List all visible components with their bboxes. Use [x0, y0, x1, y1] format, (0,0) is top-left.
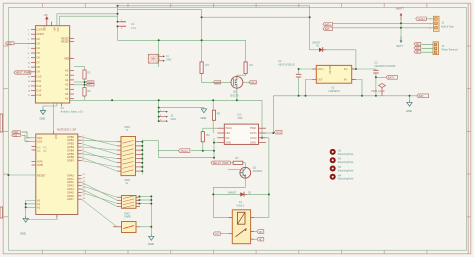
svg-text:SDA: SDA — [88, 81, 93, 84]
svg-text:Q2: Q2 — [233, 90, 237, 94]
svg-text:INTB: INTB — [37, 163, 43, 167]
svg-text:NC: NC — [43, 149, 47, 153]
svg-text:GPB0: GPB0 — [67, 135, 74, 139]
svg-text:GPA1: GPA1 — [67, 177, 74, 181]
svg-text:SDA: SDA — [37, 136, 43, 140]
svg-text:R3: R3 — [206, 63, 210, 67]
svg-text:BAT+: BAT+ — [325, 23, 332, 26]
svg-text:R4: R4 — [250, 63, 254, 67]
svg-text:BS170: BS170 — [231, 94, 239, 98]
svg-text:MountingHole: MountingHole — [338, 161, 354, 164]
svg-text:GPB6: GPB6 — [67, 155, 74, 159]
svg-text:IN-: IN- — [344, 79, 347, 82]
svg-text:GPB3: GPB3 — [67, 145, 74, 149]
svg-text:GPA5: GPA5 — [67, 190, 74, 194]
svg-text:GND: GND — [406, 109, 412, 113]
svg-text:IN+: IN+ — [344, 68, 348, 71]
svg-text:3V3: 3V3 — [43, 26, 46, 31]
svg-text:GPB1: GPB1 — [67, 138, 74, 142]
svg-text:RESET: RESET — [61, 39, 70, 43]
svg-text:A5: A5 — [65, 92, 69, 96]
svg-text:GND: GND — [148, 242, 154, 246]
svg-text:1N4007: 1N4007 — [312, 41, 321, 44]
svg-text:CO: CO — [215, 232, 219, 236]
svg-text:DIAG: DIAG — [250, 142, 256, 145]
svg-text:MountingHole: MountingHole — [338, 178, 354, 181]
svg-text:NC: NC — [416, 51, 420, 54]
svg-text:1N4007: 1N4007 — [228, 192, 237, 195]
svg-text:FB1: FB1 — [226, 132, 231, 135]
svg-text:CO: CO — [416, 47, 420, 50]
svg-text:GPA3: GPA3 — [67, 184, 74, 188]
svg-text:GND: GND — [20, 232, 26, 236]
svg-text:SDA: SDA — [13, 131, 18, 134]
svg-text:A1: A1 — [37, 202, 41, 206]
svg-text:RESET: RESET — [37, 174, 46, 178]
svg-text:LED: LED — [215, 81, 220, 84]
svg-text:GPB2: GPB2 — [67, 142, 74, 146]
svg-text:GPB4: GPB4 — [67, 148, 74, 152]
svg-text:GND: GND — [166, 59, 172, 62]
svg-text:A6: A6 — [65, 97, 69, 101]
svg-text:NC: NC — [43, 146, 47, 150]
svg-text:GPA7: GPA7 — [67, 197, 74, 201]
svg-text:2N3904: 2N3904 — [253, 169, 263, 173]
svg-text:MS1: MS1 — [251, 81, 257, 84]
svg-text:OUT2: OUT2 — [250, 137, 257, 140]
svg-text:D13: D13 — [37, 89, 42, 93]
svg-text:4.7u: 4.7u — [131, 26, 137, 30]
svg-text:GND: GND — [40, 117, 46, 121]
svg-text:+BATT: +BATT — [396, 6, 405, 10]
svg-text:R2: R2 — [206, 133, 210, 137]
svg-text:D8: D8 — [37, 65, 41, 69]
svg-text:KEUF1V331LR: KEUF1V331LR — [278, 63, 295, 66]
svg-text:R5: R5 — [217, 112, 221, 116]
svg-text:D12: D12 — [37, 84, 42, 88]
svg-text:GND: GND — [171, 118, 177, 121]
svg-text:HEAT_PWM: HEAT_PWM — [16, 71, 31, 75]
svg-text:BAT+: BAT+ — [388, 76, 395, 80]
svg-text:D2: D2 — [37, 37, 41, 41]
svg-text:NO: NO — [416, 43, 420, 46]
svg-text:D9: D9 — [37, 70, 41, 74]
svg-text:GPB5: GPB5 — [67, 152, 74, 156]
svg-text:D6: D6 — [37, 56, 41, 60]
svg-text:D4: D4 — [37, 46, 41, 50]
svg-text:Arduino_Nano_v3.x: Arduino_Nano_v3.x — [61, 109, 84, 113]
svg-text:PAD1: PAD1 — [226, 127, 233, 130]
svg-text:GPA2: GPA2 — [67, 180, 74, 184]
svg-text:D10: D10 — [37, 74, 42, 78]
svg-text:BAT-: BAT- — [325, 28, 331, 31]
svg-text:Relay Terminal: Relay Terminal — [442, 49, 458, 52]
svg-text:TACH: TACH — [418, 17, 425, 21]
svg-text:VR2: VR2 — [238, 116, 244, 120]
svg-text:SCK: SCK — [37, 139, 43, 143]
svg-text:D0/RX: D0/RX — [37, 32, 45, 36]
svg-text:MCP23017_SP: MCP23017_SP — [57, 128, 76, 132]
svg-text:DE-SW: DE-SW — [329, 65, 332, 74]
svg-text:PWR_FLAG: PWR_FLAG — [372, 90, 385, 93]
svg-text:K1: K1 — [239, 200, 243, 204]
svg-text:PWR: PWR — [250, 127, 256, 130]
svg-text:HS1: HS1 — [276, 131, 282, 135]
svg-text:A2: A2 — [65, 78, 69, 82]
svg-text:GARD: GARD — [124, 216, 131, 219]
svg-text:NC: NC — [259, 238, 263, 242]
svg-text:OUT-: OUT- — [318, 79, 324, 82]
svg-text:A3: A3 — [65, 83, 69, 87]
svg-text:D11: D11 — [37, 79, 42, 83]
svg-text:Q1: Q1 — [253, 165, 257, 169]
svg-text:NC: NC — [37, 146, 41, 150]
svg-text:NO: NO — [259, 230, 263, 234]
svg-text:BAT-: BAT- — [419, 94, 425, 98]
svg-text:GPA6: GPA6 — [67, 194, 74, 198]
svg-text:LM2596-5: LM2596-5 — [328, 89, 340, 93]
svg-text:MountingHole: MountingHole — [338, 169, 354, 172]
svg-text:-BATT: -BATT — [396, 44, 404, 48]
svg-text:C1: C1 — [131, 22, 135, 26]
svg-text:INTA: INTA — [37, 160, 43, 164]
svg-text:MountingHole: MountingHole — [338, 153, 354, 156]
svg-text:D7: D7 — [37, 60, 41, 64]
svg-text:GPA0: GPA0 — [67, 173, 74, 177]
svg-text:GPA4: GPA4 — [67, 187, 74, 191]
svg-text:KEUDW1V471RHD: KEUDW1V471RHD — [374, 65, 395, 68]
svg-text:A1: A1 — [61, 106, 65, 110]
svg-text:A0: A0 — [65, 68, 69, 72]
svg-text:GPB7: GPB7 — [67, 159, 74, 163]
svg-text:VDD: VDD — [55, 134, 58, 139]
svg-text:U2: U2 — [331, 85, 335, 89]
svg-text:AREF: AREF — [64, 56, 71, 60]
svg-text:A2: A2 — [37, 205, 41, 209]
svg-text:A0: A0 — [37, 199, 41, 203]
svg-text:LED: LED — [7, 42, 12, 45]
svg-text:GND: GND — [201, 116, 207, 120]
svg-text:+5V: +5V — [44, 14, 49, 17]
svg-text:SW3: SW3 — [124, 211, 130, 215]
svg-text:TACH: TACH — [180, 149, 187, 153]
svg-text:SCL: SCL — [13, 135, 18, 137]
svg-text:D3: D3 — [37, 42, 41, 46]
svg-text:A1: A1 — [65, 73, 69, 77]
svg-text:VIN: VIN — [57, 27, 60, 31]
svg-text:GND: GND — [226, 142, 232, 145]
svg-text:BoB & Tach: BoB & Tach — [441, 25, 454, 28]
svg-text:IC1: IC1 — [238, 113, 243, 117]
svg-text:A4: A4 — [65, 87, 69, 91]
svg-text:RELAY_PWR: RELAY_PWR — [213, 161, 229, 165]
svg-text:NC: NC — [37, 149, 41, 153]
svg-text:D14: D14 — [37, 93, 42, 97]
svg-text:IN2: IN2 — [226, 137, 231, 140]
svg-text:OUT+: OUT+ — [318, 68, 325, 71]
svg-text:D5: D5 — [37, 51, 41, 55]
svg-text:G5Q-1: G5Q-1 — [237, 204, 245, 208]
svg-text:OUT1: OUT1 — [250, 132, 257, 135]
